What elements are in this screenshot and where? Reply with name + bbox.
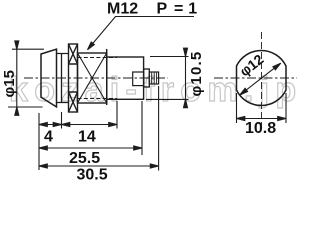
dimension and leader lines (8, 17, 286, 171)
terminal pin (149, 72, 158, 84)
svg-text:1: 1 (188, 1, 197, 18)
centerline side view vertical (261, 32, 263, 125)
terminal flange (144, 69, 150, 87)
svg-text:M12: M12 (107, 1, 138, 18)
svg-text:10.8: 10.8 (245, 120, 276, 137)
ext lines bottom rows (39, 86, 159, 171)
lock washer (69, 44, 78, 112)
svg-text:25.5: 25.5 (69, 150, 100, 167)
phi12 dimension (240, 63, 281, 95)
M12 leader (89, 17, 195, 49)
pin ticks (152, 72, 157, 84)
row 4 / 14 (39, 124, 117, 126)
svg-text:4: 4 (44, 129, 53, 146)
svg-text:φ15: φ15 (1, 70, 18, 97)
svg-text:=: = (174, 1, 183, 18)
row 30.5 (39, 165, 159, 167)
centerline main view (24, 77, 168, 79)
svg-text:14: 14 (78, 129, 96, 146)
bezel head (41, 49, 57, 107)
svg-text:φ10.5: φ10.5 (188, 51, 205, 97)
svg-text:P: P (157, 1, 168, 18)
rear housing (107, 57, 144, 99)
inner box (133, 72, 144, 86)
phi15 dimension (8, 43, 44, 113)
mount plate (61, 54, 63, 103)
thread root dashed (78, 58, 118, 99)
centerline side view horizontal (214, 77, 297, 79)
side view flatted circle (237, 50, 287, 105)
neck (57, 54, 69, 103)
body back flange (106, 49, 108, 105)
threaded body (78, 53, 107, 103)
10.8 dimension (237, 93, 287, 123)
phi10.5 dimension (146, 48, 189, 109)
watermark (9, 71, 302, 109)
svg-text:30.5: 30.5 (77, 167, 108, 182)
row 25.5 (39, 147, 142, 149)
